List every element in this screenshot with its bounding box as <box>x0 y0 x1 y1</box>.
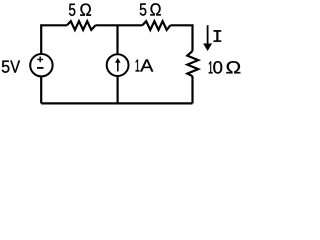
I1 arrow head <box>115 58 121 63</box>
resistor R2 (5 ohm, right) <box>142 21 170 30</box>
wire: left top run <box>41 25 67 54</box>
current arrow I shaft (points down) <box>207 25 209 44</box>
wire: left lower <box>40 76 42 103</box>
current arrow I head <box>203 44 212 52</box>
voltage source V1 circle <box>30 54 52 76</box>
label I <box>214 30 222 42</box>
wire: middle branch bottom <box>116 76 118 103</box>
resistor R1 (5 ohm, left) <box>67 21 96 30</box>
label 1A <box>136 59 154 71</box>
wire: top right corner run <box>170 25 192 51</box>
V1 plus sign <box>37 57 43 63</box>
label 10 ohm for R3 <box>209 61 241 73</box>
label 5 ohm for R1 <box>69 3 91 15</box>
wire: right lower <box>191 76 193 103</box>
wire: middle branch top <box>116 25 118 54</box>
current source I1 circle <box>107 54 129 76</box>
wire: bottom <box>41 102 192 104</box>
I1 arrow shaft (points up) <box>117 62 119 72</box>
label 5V <box>2 61 20 73</box>
V1 minus sign <box>37 67 44 69</box>
wire: top middle between R1 and R2 <box>96 24 143 26</box>
label 5 ohm for R2 <box>140 3 161 15</box>
resistor R3 (10 ohm, vertical) <box>187 51 198 76</box>
